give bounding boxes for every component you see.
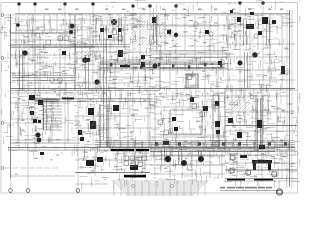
title bubble xyxy=(276,189,282,195)
building walls xyxy=(8,10,297,187)
column grid lines with top bubbles xyxy=(18,2,265,179)
black bar B xyxy=(124,175,146,178)
top dimension text xyxy=(45,9,283,10)
secondary grid verticals xyxy=(11,10,293,189)
staircase treads xyxy=(43,106,62,130)
pipe and annotation texture xyxy=(0,1,308,191)
outlined fixtures xyxy=(46,20,277,177)
equipment blobs xyxy=(16,10,285,170)
curved seating grid xyxy=(112,181,208,196)
diagonal hatch patches xyxy=(76,16,250,112)
sheet border xyxy=(1,3,298,194)
structural line mesh xyxy=(10,14,297,184)
label marks xyxy=(13,17,295,175)
duct runs xyxy=(12,15,275,165)
bottom grid bubbles xyxy=(9,189,80,193)
dense duct corridor bands xyxy=(95,51,297,152)
black bar A xyxy=(111,149,149,151)
left corridor band xyxy=(11,44,96,48)
bottom dark dashes xyxy=(227,179,273,181)
plan title text xyxy=(220,187,281,191)
row grid lines with left bubbles xyxy=(1,14,290,170)
